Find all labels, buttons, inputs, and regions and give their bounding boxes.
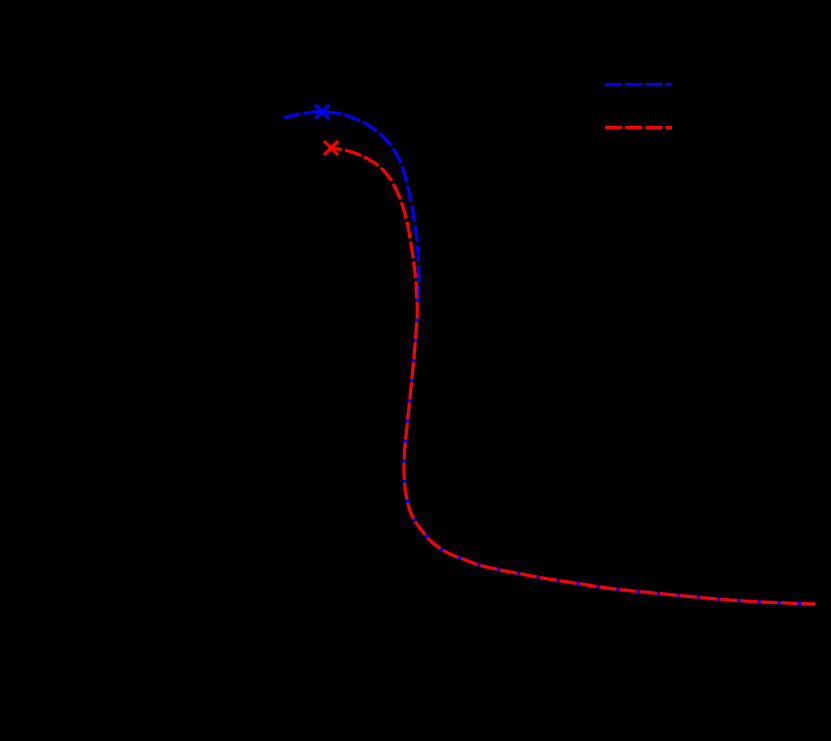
legend blue dashed sample (605, 83, 672, 86)
red X marker (324, 141, 338, 155)
blue X marker (315, 105, 329, 119)
red dashed curve (331, 148, 815, 604)
legend red dashed sample (605, 126, 672, 129)
blue dashed curve (284, 112, 815, 604)
